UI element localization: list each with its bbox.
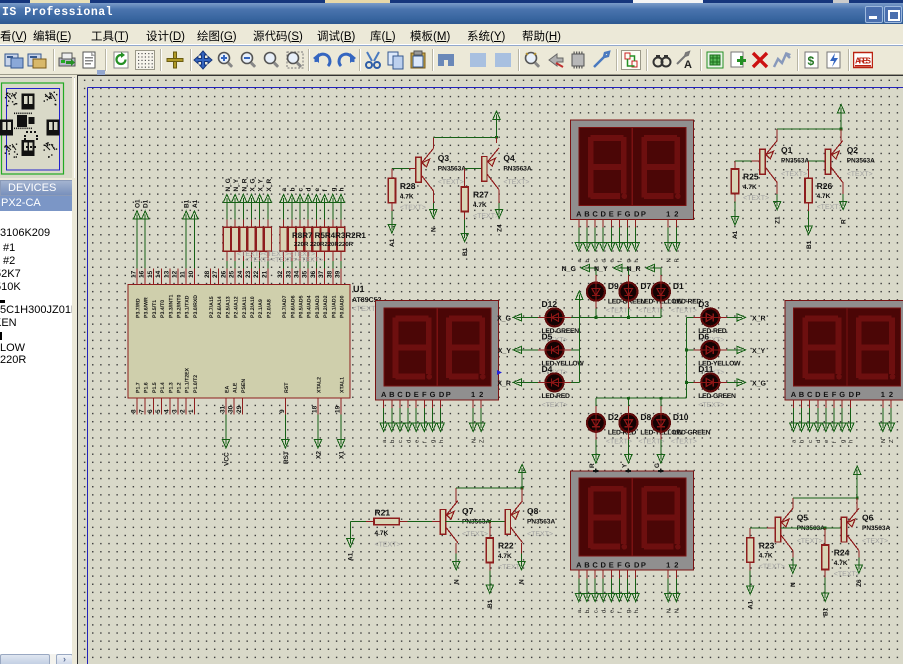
transistor Q3 bbox=[416, 149, 434, 191]
svg-text:b: b bbox=[584, 610, 591, 613]
svg-text:28: 28 bbox=[204, 270, 211, 278]
terminal N_G bbox=[562, 264, 596, 283]
node U1 top pin names bbox=[136, 295, 346, 318]
wire right LED common vertical bbox=[685, 317, 688, 398]
transistor Q7 bbox=[440, 501, 458, 543]
svg-text:D5: D5 bbox=[542, 331, 553, 341]
node Q5 labels bbox=[797, 513, 825, 546]
svg-text:g: g bbox=[431, 440, 437, 443]
svg-text:<TEXT>: <TEXT> bbox=[503, 179, 529, 186]
wire Q8 collector bbox=[518, 543, 526, 584]
svg-text:G: G bbox=[625, 210, 631, 219]
terminal O1 bbox=[133, 199, 141, 268]
svg-text:D: D bbox=[405, 390, 411, 399]
svg-text:$: $ bbox=[808, 54, 815, 68]
node resistor pack labels bbox=[237, 231, 366, 264]
svg-text:X_Y: X_Y bbox=[258, 179, 265, 192]
svg-text:X1: X1 bbox=[339, 451, 346, 459]
svg-text:9: 9 bbox=[279, 409, 286, 413]
terminal segment b bbox=[288, 188, 296, 269]
svg-text:P0.3/AD3: P0.3/AD3 bbox=[315, 295, 321, 318]
svg-text:DP: DP bbox=[439, 390, 452, 399]
svg-text:Z4: Z4 bbox=[496, 224, 503, 232]
svg-text:N: N bbox=[471, 439, 477, 443]
node Q3 labels bbox=[438, 153, 466, 186]
svg-text:14: 14 bbox=[155, 270, 162, 278]
svg-text:P1.7: P1.7 bbox=[136, 382, 142, 393]
svg-text:D2: D2 bbox=[608, 412, 619, 422]
svg-text:B: B bbox=[389, 390, 395, 399]
svg-text:C: C bbox=[807, 390, 813, 399]
LED D2 (LED-RED) bbox=[587, 412, 636, 446]
svg-text:a: a bbox=[281, 188, 288, 192]
svg-text:X_R: X_R bbox=[752, 315, 766, 322]
svg-text:33: 33 bbox=[285, 270, 292, 278]
terminal VCC bbox=[222, 414, 230, 466]
svg-text:D8: D8 bbox=[640, 412, 651, 422]
svg-text:A1: A1 bbox=[747, 600, 754, 609]
transistor Q4 bbox=[482, 148, 500, 190]
LED D8 (LED-YELLOW) bbox=[619, 412, 683, 446]
svg-text:R27: R27 bbox=[473, 190, 489, 200]
wire top LED cathode bbox=[627, 300, 629, 317]
svg-text:P3.3/INT1: P3.3/INT1 bbox=[168, 295, 174, 318]
wire R22 to Q8 base bbox=[446, 520, 506, 538]
7-segment display DS3 (right) bbox=[785, 301, 903, 400]
svg-text:R25: R25 bbox=[743, 172, 759, 182]
svg-text:c: c bbox=[398, 440, 404, 443]
svg-text:24: 24 bbox=[237, 270, 244, 278]
svg-text:X_Y: X_Y bbox=[752, 348, 766, 355]
node Q8 labels bbox=[527, 506, 555, 538]
svg-text:<TEXT>: <TEXT> bbox=[797, 538, 823, 545]
svg-text:G: G bbox=[430, 390, 436, 399]
svg-text:37: 37 bbox=[318, 270, 325, 278]
svg-text:D7: D7 bbox=[640, 281, 651, 291]
svg-text:<TEXT>: <TEXT> bbox=[817, 204, 843, 211]
terminal X_G bbox=[248, 178, 257, 268]
svg-text:e: e bbox=[414, 440, 420, 443]
svg-text:P3.7/RD: P3.7/RD bbox=[136, 298, 142, 318]
svg-text:PN3563A: PN3563A bbox=[438, 166, 466, 173]
node DS4 top pin marks bbox=[589, 463, 664, 473]
svg-text:R: R bbox=[589, 463, 596, 468]
svg-text:<TEXT>: <TEXT> bbox=[542, 402, 568, 409]
svg-text:5: 5 bbox=[155, 409, 162, 413]
transistor Q5 bbox=[775, 508, 793, 550]
LED D5 (LED-YELLOW) bbox=[542, 331, 585, 376]
transistor Q1 bbox=[760, 141, 778, 183]
svg-text:<TEXT>: <TEXT> bbox=[698, 402, 724, 409]
svg-text:4.7K: 4.7K bbox=[400, 193, 414, 200]
svg-text:18: 18 bbox=[312, 405, 319, 413]
svg-text:g: g bbox=[626, 610, 632, 613]
svg-text:Z1: Z1 bbox=[774, 216, 781, 224]
svg-text:P0.7/AD7: P0.7/AD7 bbox=[282, 295, 288, 318]
svg-text:31: 31 bbox=[220, 405, 227, 413]
svg-text:Q3: Q3 bbox=[438, 153, 450, 163]
resistor R23 bbox=[747, 538, 785, 571]
LED D7 (LED-YELLOW) bbox=[619, 281, 683, 315]
wire Q6 collector bbox=[855, 551, 863, 588]
svg-text:N_R: N_R bbox=[627, 266, 641, 273]
LED D10 (LED-GREEN) bbox=[652, 412, 711, 446]
wire R28 terminal A1 bbox=[388, 203, 396, 247]
svg-text:VCC: VCC bbox=[224, 452, 231, 466]
svg-text:B: B bbox=[584, 560, 590, 569]
left panel bbox=[0, 75, 77, 664]
svg-text:4.7K: 4.7K bbox=[473, 202, 487, 209]
transistor Q8 bbox=[505, 501, 522, 543]
svg-text:D9: D9 bbox=[608, 281, 619, 291]
LED D11 (LED-GREEN) bbox=[698, 364, 736, 409]
svg-text:R22: R22 bbox=[498, 541, 514, 551]
svg-text:N: N bbox=[790, 582, 797, 587]
terminal X_R (right) bbox=[719, 314, 766, 323]
terminal X_G (left) bbox=[497, 314, 546, 323]
svg-text:G: G bbox=[654, 463, 661, 468]
wire Q3 collector bbox=[430, 191, 438, 232]
svg-text:4.7K: 4.7K bbox=[834, 560, 848, 567]
svg-text:D4: D4 bbox=[542, 364, 553, 374]
svg-text:N_Y: N_Y bbox=[233, 178, 240, 191]
wire R23 terminal A1 bbox=[747, 562, 755, 609]
terminal segment h bbox=[337, 188, 345, 269]
svg-text:E: E bbox=[609, 210, 614, 219]
svg-text:b: b bbox=[289, 188, 296, 192]
terminal top-right common bbox=[838, 105, 845, 131]
terminal bottom LED cathode bbox=[592, 431, 599, 463]
node no-connect marker bbox=[497, 370, 502, 375]
svg-text:A: A bbox=[576, 210, 582, 219]
svg-text:39: 39 bbox=[335, 270, 342, 278]
svg-text:N: N bbox=[519, 579, 526, 584]
svg-text:Q2: Q2 bbox=[847, 145, 859, 155]
wire LED left column to common bbox=[563, 349, 579, 351]
svg-text:Q7: Q7 bbox=[462, 506, 474, 516]
svg-text:B: B bbox=[584, 210, 590, 219]
terminal A1 bbox=[191, 199, 199, 268]
svg-text:22: 22 bbox=[253, 270, 260, 278]
wire R27 terminal B1 bbox=[461, 212, 469, 257]
LED D12 (LED-GREEN) bbox=[542, 299, 580, 344]
node Q6 labels bbox=[862, 513, 890, 546]
svg-text:G: G bbox=[625, 560, 631, 569]
svg-text:D12: D12 bbox=[542, 299, 558, 309]
svg-text:1: 1 bbox=[471, 390, 475, 399]
node U1 bottom pin numbers bbox=[131, 405, 342, 413]
svg-text:F: F bbox=[617, 560, 622, 569]
svg-text:N_R: N_R bbox=[241, 178, 248, 191]
svg-text:E: E bbox=[823, 390, 828, 399]
svg-text:32: 32 bbox=[277, 270, 284, 278]
resistor pack R1-R8 (220R) bbox=[280, 227, 345, 251]
svg-text:N: N bbox=[431, 227, 438, 232]
svg-text:B1: B1 bbox=[462, 247, 469, 256]
sheet border bbox=[88, 88, 903, 664]
svg-text:d: d bbox=[600, 259, 607, 262]
svg-text:16: 16 bbox=[139, 270, 146, 278]
svg-text:P1.5: P1.5 bbox=[152, 382, 158, 393]
svg-text:3: 3 bbox=[172, 409, 179, 413]
svg-text:D6: D6 bbox=[698, 331, 709, 341]
terminal segment a bbox=[280, 188, 288, 269]
wire Q4 emitter bbox=[496, 137, 498, 143]
svg-text:P2.2/A10: P2.2/A10 bbox=[250, 296, 256, 318]
svg-text:12: 12 bbox=[172, 270, 179, 278]
svg-text:d: d bbox=[306, 188, 313, 192]
wire top LED cathode bbox=[595, 300, 597, 317]
svg-text:g: g bbox=[330, 188, 337, 192]
terminal bottom LED cathode bbox=[657, 431, 664, 463]
svg-text:R28: R28 bbox=[400, 181, 416, 191]
wire R26 to Q2 base bbox=[809, 161, 826, 178]
svg-text:F: F bbox=[617, 210, 622, 219]
svg-text:<TEXT>: <TEXT> bbox=[438, 179, 464, 186]
terminal common (up arrow) left group bbox=[576, 291, 583, 299]
svg-text:X_R: X_R bbox=[497, 380, 511, 387]
svg-text:B1: B1 bbox=[487, 599, 494, 608]
wire bottom LED anode bbox=[627, 398, 629, 414]
terminal N_R bbox=[240, 178, 249, 268]
svg-text:Z: Z bbox=[889, 439, 895, 443]
wire right LED anode bbox=[686, 349, 701, 351]
microcontroller U1 AT89C52 bbox=[128, 284, 382, 398]
wire display segment pins to terminals bbox=[575, 220, 680, 263]
svg-text:D11: D11 bbox=[698, 364, 713, 374]
svg-text:A1: A1 bbox=[192, 199, 199, 208]
svg-text:<TEXT>: <TEXT> bbox=[400, 204, 426, 211]
terminal X_Y bbox=[256, 179, 265, 269]
svg-text:Q6: Q6 bbox=[862, 513, 874, 523]
top desktop strip bbox=[0, 0, 903, 3]
svg-text:N: N bbox=[666, 609, 672, 613]
LED D4 (LED-RED) bbox=[542, 364, 570, 409]
svg-text:h: h bbox=[633, 259, 640, 262]
svg-text:R: R bbox=[675, 258, 681, 262]
svg-text:10: 10 bbox=[188, 270, 195, 278]
svg-text:h: h bbox=[339, 188, 346, 192]
svg-text:g: g bbox=[840, 440, 846, 443]
svg-text:PN3563A: PN3563A bbox=[503, 166, 531, 173]
wire R21 terminal A1 bbox=[347, 521, 374, 561]
svg-text:<TEXT>: <TEXT> bbox=[462, 531, 488, 538]
svg-text:38: 38 bbox=[326, 270, 333, 278]
node Q2 labels bbox=[847, 145, 875, 178]
svg-text:F: F bbox=[832, 390, 837, 399]
svg-text:DP: DP bbox=[634, 560, 647, 569]
svg-text:23: 23 bbox=[245, 270, 252, 278]
svg-text:N_G: N_G bbox=[225, 178, 232, 191]
resistor R26 bbox=[805, 178, 843, 211]
svg-text:c: c bbox=[593, 610, 599, 613]
svg-text:D1: D1 bbox=[673, 281, 684, 291]
svg-text:P2.6/A14: P2.6/A14 bbox=[217, 296, 223, 318]
terminal X_Y (left) bbox=[498, 346, 546, 355]
svg-text:X_G: X_G bbox=[250, 178, 257, 191]
svg-text:P0.0/AD0: P0.0/AD0 bbox=[340, 295, 346, 318]
svg-text:O1: O1 bbox=[135, 199, 142, 208]
wire Q2 collector bbox=[840, 183, 848, 224]
svg-text:1: 1 bbox=[881, 390, 885, 399]
svg-text:D1: D1 bbox=[143, 199, 150, 208]
wire left LED common vertical bbox=[578, 300, 580, 383]
terminal X_R (left) bbox=[497, 379, 546, 388]
svg-text:PN3563A: PN3563A bbox=[781, 158, 809, 165]
wire top LED bus bbox=[579, 316, 661, 319]
svg-text:A: A bbox=[381, 390, 387, 399]
scrollbar bbox=[0, 654, 72, 664]
wire R23 to Q5 base bbox=[750, 528, 775, 538]
svg-text:B1: B1 bbox=[184, 199, 191, 208]
transistor Q6 bbox=[841, 508, 859, 550]
svg-text:P1.3: P1.3 bbox=[168, 382, 174, 393]
svg-text:P3.4/T0: P3.4/T0 bbox=[160, 300, 166, 318]
svg-text:PSEN: PSEN bbox=[241, 379, 247, 393]
svg-text:h: h bbox=[633, 610, 640, 613]
resistor R28 bbox=[388, 178, 426, 211]
svg-text:N: N bbox=[881, 439, 887, 443]
wire U1 top pin stubs bbox=[137, 268, 341, 284]
svg-text:G: G bbox=[839, 390, 845, 399]
svg-text:A: A bbox=[791, 390, 797, 399]
svg-text:6: 6 bbox=[147, 409, 154, 413]
svg-text:P2.4/A12: P2.4/A12 bbox=[234, 296, 240, 318]
svg-text:A1: A1 bbox=[732, 230, 739, 239]
svg-text:P2.3/A11: P2.3/A11 bbox=[242, 297, 248, 318]
svg-text:B1: B1 bbox=[822, 607, 829, 616]
svg-text:P2.7/A15: P2.7/A15 bbox=[209, 296, 215, 318]
wire Q7 collector bbox=[453, 543, 461, 584]
wire U1 bottom pin stubs bbox=[137, 398, 341, 414]
svg-text:X_Y: X_Y bbox=[498, 348, 512, 355]
svg-text:<TEXT>: <TEXT> bbox=[527, 531, 553, 538]
node Q1 labels bbox=[781, 145, 809, 178]
svg-text:N_G: N_G bbox=[562, 266, 577, 273]
svg-text:e: e bbox=[314, 188, 321, 192]
svg-text:17: 17 bbox=[131, 270, 138, 278]
svg-text:d: d bbox=[600, 610, 607, 613]
svg-text:Q5: Q5 bbox=[797, 513, 809, 523]
resistor pack RP1 (6 resistors) bbox=[223, 227, 271, 251]
svg-text:PN3563A: PN3563A bbox=[847, 158, 875, 165]
terminal X_G (right) bbox=[719, 379, 767, 388]
svg-text:PN3563A: PN3563A bbox=[462, 519, 490, 526]
svg-text:A: A bbox=[684, 59, 692, 70]
svg-text:19: 19 bbox=[335, 405, 342, 413]
terminal X_R bbox=[264, 179, 273, 269]
svg-text:4.7K: 4.7K bbox=[759, 553, 773, 560]
svg-text:4.7K: 4.7K bbox=[743, 184, 757, 191]
svg-text:35: 35 bbox=[302, 270, 309, 278]
menu bar bbox=[0, 24, 903, 44]
wire display segment pins to terminals bbox=[575, 570, 680, 613]
svg-text:e: e bbox=[610, 610, 616, 613]
terminal X_Y (right) bbox=[719, 346, 766, 355]
svg-text:2: 2 bbox=[674, 210, 678, 219]
svg-text:P3.2/INT0: P3.2/INT0 bbox=[177, 295, 183, 318]
terminal segment d bbox=[305, 188, 313, 269]
svg-text:PN3563A: PN3563A bbox=[862, 525, 890, 532]
svg-text:P0.2/AD2: P0.2/AD2 bbox=[323, 295, 329, 318]
svg-text:LED-RED: LED-RED bbox=[542, 393, 570, 400]
wire R25 to Q1 base bbox=[735, 161, 760, 169]
wire right LED anode bbox=[686, 381, 701, 383]
svg-text:<TEXT><TEXT><TEXT>: <TEXT><TEXT><TEXT> bbox=[245, 257, 323, 264]
svg-text:c: c bbox=[298, 188, 305, 192]
svg-text:N: N bbox=[675, 609, 681, 613]
wire Q7 emitter to rail bbox=[456, 488, 522, 502]
svg-text:P2.5/A13: P2.5/A13 bbox=[225, 296, 231, 318]
wire Q2 emitter bbox=[840, 129, 842, 142]
LED D9 (LED-GREEN) bbox=[587, 281, 646, 315]
wire R26 terminal B1 bbox=[805, 203, 813, 249]
svg-text:8: 8 bbox=[131, 409, 138, 413]
resistor R21 bbox=[374, 508, 401, 549]
svg-text:U1: U1 bbox=[353, 284, 365, 294]
node U1 bottom pin names bbox=[136, 367, 346, 393]
svg-text:Z: Z bbox=[479, 439, 485, 443]
svg-text:1: 1 bbox=[666, 210, 670, 219]
svg-text:220R 220R220R220R: 220R 220R220R220R bbox=[294, 241, 354, 248]
svg-text:<TEXT>: <TEXT> bbox=[834, 571, 860, 578]
terminal segment e bbox=[313, 188, 321, 269]
svg-text:P2.1/A9: P2.1/A9 bbox=[258, 299, 264, 318]
svg-text:B1: B1 bbox=[806, 240, 813, 249]
svg-text:2: 2 bbox=[674, 560, 678, 569]
wire Q3 emitter to VCC rail bbox=[433, 137, 496, 148]
svg-text:A1: A1 bbox=[389, 238, 396, 247]
svg-text:b: b bbox=[389, 440, 396, 443]
svg-text:e: e bbox=[824, 440, 830, 443]
svg-text:P0.6/AD6: P0.6/AD6 bbox=[290, 295, 296, 318]
terminal N_G bbox=[223, 178, 232, 268]
terminal segment f bbox=[321, 189, 329, 269]
toolbar bbox=[0, 46, 903, 75]
terminal bottom-right common bbox=[854, 466, 861, 500]
svg-text:4.7K: 4.7K bbox=[817, 193, 831, 200]
svg-text:A: A bbox=[576, 560, 582, 569]
terminal bottom-left common bbox=[519, 464, 526, 489]
terminal N_R bbox=[627, 264, 661, 283]
terminal N_Y bbox=[232, 178, 241, 268]
svg-text:Q4: Q4 bbox=[503, 153, 515, 163]
7-segment display DS1 (top) bbox=[571, 120, 694, 219]
svg-text:LED-GREEN: LED-GREEN bbox=[698, 393, 736, 400]
wire top LED cathode bbox=[660, 300, 662, 317]
svg-text:<TEXT>: <TEXT> bbox=[743, 195, 769, 202]
wire R21 to Q7 base bbox=[399, 520, 440, 522]
svg-text:D10: D10 bbox=[673, 412, 689, 422]
svg-text:RST: RST bbox=[284, 382, 290, 393]
svg-text:C: C bbox=[592, 210, 598, 219]
wire bottom LED anode bbox=[660, 398, 662, 414]
svg-text:34: 34 bbox=[294, 270, 301, 278]
wire R28 to Q3 base bbox=[392, 169, 416, 179]
svg-text:c: c bbox=[808, 440, 814, 443]
svg-text:c: c bbox=[593, 260, 599, 263]
terminal bottom LED cathode bbox=[625, 431, 632, 463]
svg-text:Y: Y bbox=[621, 463, 628, 468]
wire R24 to Q6 base bbox=[781, 527, 842, 545]
LED D1 (LED-RED) bbox=[652, 281, 701, 315]
wire Q1 collector bbox=[774, 183, 782, 224]
transistor Q2 bbox=[825, 141, 843, 183]
svg-text:P3.6/WR: P3.6/WR bbox=[144, 297, 150, 318]
svg-text:D: D bbox=[815, 390, 821, 399]
svg-text:P3.1/TXD: P3.1/TXD bbox=[185, 295, 191, 318]
svg-text:11: 11 bbox=[180, 271, 187, 278]
